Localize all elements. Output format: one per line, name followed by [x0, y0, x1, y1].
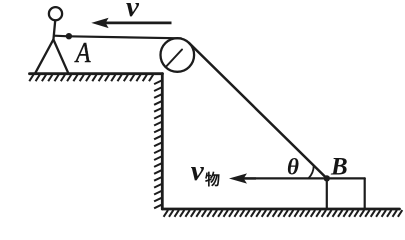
svg-text:θ: θ [287, 155, 299, 180]
svg-text:v: v [126, 0, 140, 23]
svg-text:v: v [191, 155, 205, 187]
svg-text:A: A [74, 38, 91, 69]
svg-text:B: B [330, 154, 348, 181]
svg-text:物: 物 [205, 170, 220, 188]
